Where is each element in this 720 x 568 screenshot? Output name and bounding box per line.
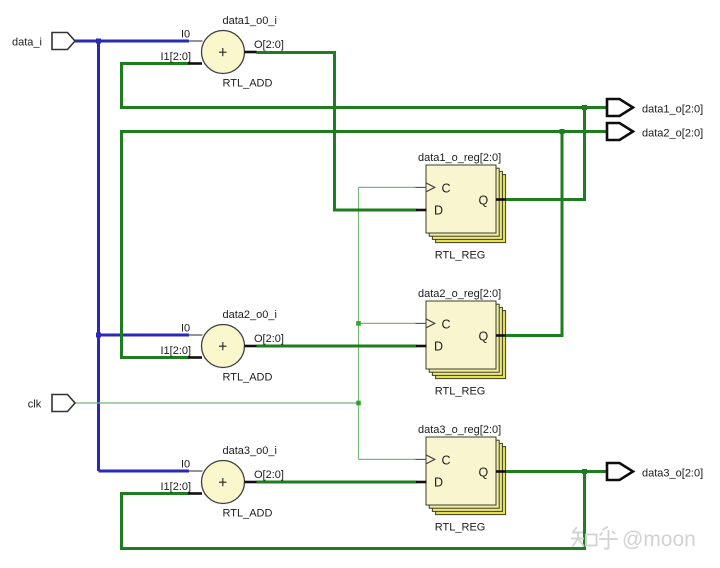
- svg-text:RTL_REG: RTL_REG: [435, 385, 486, 397]
- svg-text:D: D: [434, 476, 443, 490]
- label RTL_ADD U1: [223, 77, 273, 89]
- wire net data_i vertical trunk: [97, 41, 100, 471]
- junction net clk at feed tap: [356, 401, 361, 406]
- pin label I0 adder1: [181, 29, 190, 41]
- output port data1_o: [607, 99, 633, 116]
- adder data2_o0_i RTL_ADD: [188, 325, 257, 368]
- svg-text:@moon: @moon: [622, 528, 696, 551]
- input port clk: [52, 395, 75, 412]
- wire net data2_o0 adder2 O to reg2 D: [257, 345, 417, 348]
- junction net clk at reg2 branch: [356, 321, 361, 326]
- pin label O[2:0] adder2: [254, 333, 284, 345]
- wire net clk branch to reg3 C: [359, 458, 416, 460]
- input port data_i: [52, 33, 75, 50]
- wire net data3_o0 adder3 O to reg3 D: [257, 481, 417, 484]
- register data3_o_reg RTL_REG: [416, 437, 506, 515]
- junction net data1_o: [582, 105, 587, 110]
- label RTL_REG R1: [435, 249, 486, 261]
- adder data3_o0_i RTL_ADD: [188, 461, 257, 504]
- svg-text:RTL_REG: RTL_REG: [435, 249, 486, 261]
- label RTL_REG R3: [435, 521, 486, 533]
- pin label I1[2:0] adder2: [161, 345, 192, 357]
- label data1_o0_i: [223, 15, 277, 27]
- wire net data3_o reg3 Q to port: [506, 470, 608, 473]
- svg-text:Q: Q: [479, 193, 489, 207]
- svg-text:data2_o_reg[2:0]: data2_o_reg[2:0]: [418, 288, 501, 300]
- svg-text:Q: Q: [479, 329, 489, 343]
- svg-text:I0: I0: [181, 29, 190, 41]
- svg-text:RTL_ADD: RTL_ADD: [223, 77, 273, 89]
- svg-text:data3_o[2:0]: data3_o[2:0]: [642, 467, 703, 479]
- svg-text:data3_o_reg[2:0]: data3_o_reg[2:0]: [418, 424, 501, 436]
- label clk: [28, 399, 42, 411]
- svg-text:D: D: [434, 204, 443, 218]
- label data1_o[2:0]: [642, 103, 703, 115]
- svg-text:I1[2:0]: I1[2:0]: [161, 51, 192, 63]
- svg-text:data2_o0_i: data2_o0_i: [223, 309, 277, 321]
- label data2_o[2:0]: [642, 127, 703, 139]
- label data_i: [12, 36, 42, 48]
- adder data1_o0_i RTL_ADD: [188, 31, 257, 74]
- pin label O[2:0] adder3: [254, 469, 284, 481]
- output port data2_o: [607, 123, 633, 140]
- junction net data3_o: [582, 469, 587, 474]
- svg-text:data3_o0_i: data3_o0_i: [223, 445, 277, 457]
- svg-text:data1_o_reg[2:0]: data1_o_reg[2:0]: [418, 152, 501, 164]
- svg-text:C: C: [442, 318, 451, 332]
- wire net clk branch to reg2 C: [359, 322, 416, 324]
- svg-text:I0: I0: [181, 459, 190, 471]
- label data3_o[2:0]: [642, 467, 703, 479]
- wire net data1_o feedback adder1 I1 and port run: [122, 64, 608, 108]
- svg-text:C: C: [442, 454, 451, 468]
- svg-text:RTL_ADD: RTL_ADD: [223, 507, 273, 519]
- svg-text:I1[2:0]: I1[2:0]: [161, 481, 192, 493]
- svg-text:data_i: data_i: [12, 36, 42, 48]
- wire net data3_o feedback loop to adder3 I1: [122, 472, 585, 549]
- svg-text:O[2:0]: O[2:0]: [254, 469, 284, 481]
- svg-text:O[2:0]: O[2:0]: [254, 333, 284, 345]
- svg-text:data1_o[2:0]: data1_o[2:0]: [642, 103, 703, 115]
- junction net data_i at adder1 tap: [96, 39, 101, 44]
- wire net data2_o feedback adder2 I1 and port run: [122, 132, 608, 358]
- svg-text:D: D: [434, 340, 443, 354]
- register data2_o_reg RTL_REG: [416, 301, 506, 379]
- wire net data_i branch to adder2 I0: [99, 334, 190, 337]
- wire net clk branch to reg1 C: [359, 186, 416, 188]
- label data1_o_reg[2:0]: [418, 152, 501, 164]
- junction net data2_o: [560, 129, 565, 134]
- svg-text:C: C: [442, 182, 451, 196]
- label RTL_ADD U2: [223, 371, 273, 383]
- label RTL_ADD U3: [223, 507, 273, 519]
- wire net data1_o0 adder1 O to reg1 D: [257, 53, 417, 211]
- pin label I0 adder2: [181, 323, 190, 335]
- watermark zhihu moon: [571, 527, 618, 549]
- pin label I0 adder3: [181, 459, 190, 471]
- svg-text:data1_o0_i: data1_o0_i: [223, 15, 277, 27]
- label data2_o0_i: [223, 309, 277, 321]
- svg-text:Q: Q: [479, 465, 489, 479]
- wire net data_i horizontal port to adder1 I0: [75, 40, 189, 43]
- wire net clk vertical trunk: [358, 187, 360, 459]
- label data2_o_reg[2:0]: [418, 288, 501, 300]
- wire net clk horizontal from port: [75, 402, 359, 404]
- wire net data_i branch to adder3 I0: [99, 470, 190, 473]
- wire net data1_o from reg1 Q up to port run: [506, 108, 585, 200]
- pin label I1[2:0] adder3: [161, 481, 192, 493]
- label data3_o0_i: [223, 445, 277, 457]
- svg-text:data2_o[2:0]: data2_o[2:0]: [642, 127, 703, 139]
- label RTL_REG R2: [435, 385, 486, 397]
- svg-text:I1[2:0]: I1[2:0]: [161, 345, 192, 357]
- pin label I1[2:0] adder1: [161, 51, 192, 63]
- junction net data_i at adder2 tap: [96, 333, 101, 338]
- svg-text:O[2:0]: O[2:0]: [254, 39, 284, 51]
- svg-text:RTL_ADD: RTL_ADD: [223, 371, 273, 383]
- svg-text:RTL_REG: RTL_REG: [435, 521, 486, 533]
- svg-text:I0: I0: [181, 323, 190, 335]
- register data1_o_reg RTL_REG: [416, 165, 506, 243]
- svg-text:clk: clk: [28, 399, 42, 411]
- pin label O[2:0] adder1: [254, 39, 284, 51]
- label data3_o_reg[2:0]: [418, 424, 501, 436]
- output port data3_o: [607, 463, 633, 480]
- wire net data2_o from reg2 Q up to port run: [506, 132, 563, 336]
